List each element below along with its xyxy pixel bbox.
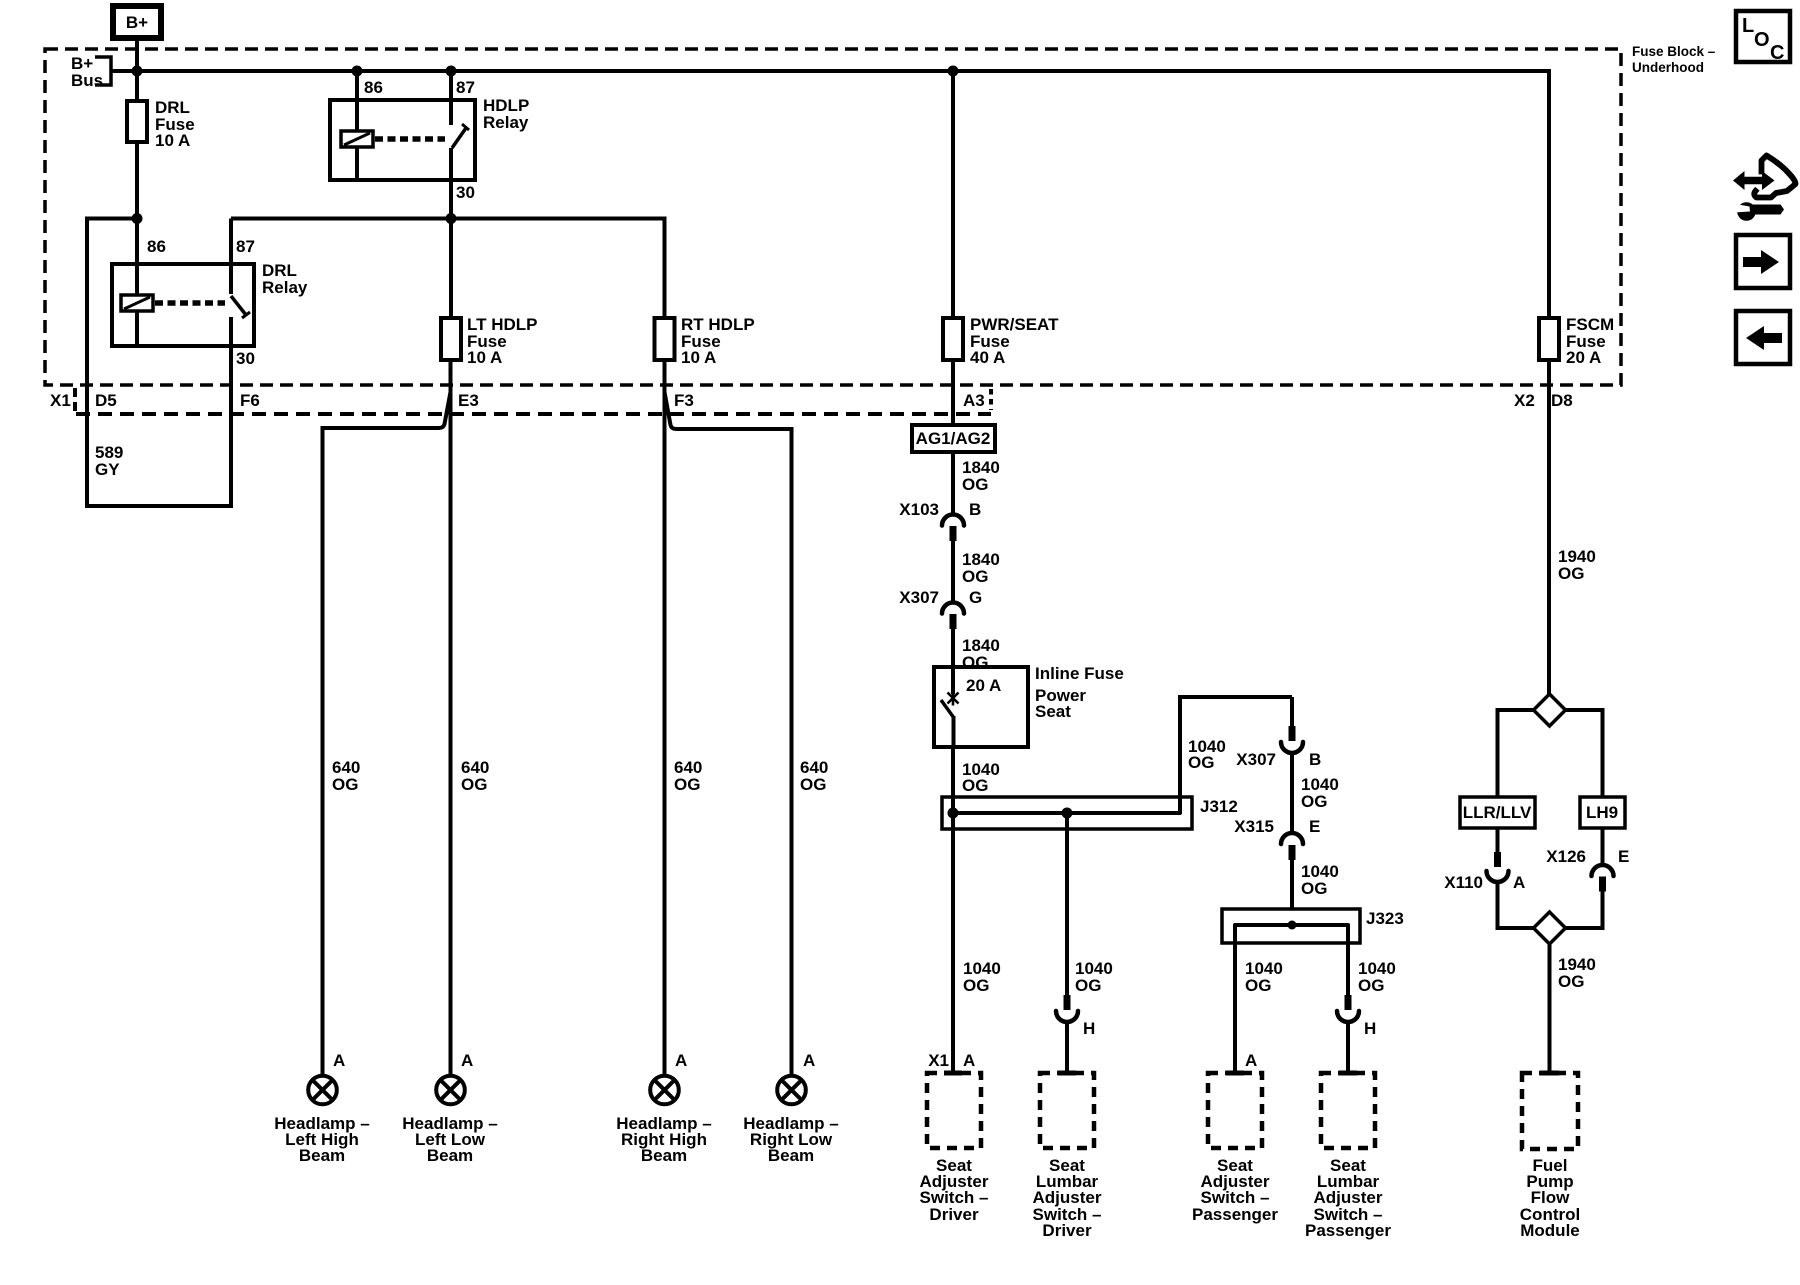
node AG1/AG2 <box>912 425 995 452</box>
connector X110 pin A <box>1444 828 1525 892</box>
junction dot J312 lumbar tap <box>1062 808 1073 819</box>
B+ power symbol <box>113 6 161 38</box>
relay DRL <box>112 219 308 369</box>
svg-text:10 A: 10 A <box>681 348 716 367</box>
lamp right low beam <box>743 1051 838 1165</box>
wire X103 to X307 <box>951 541 955 603</box>
bus rail B+ <box>111 71 1549 318</box>
fuel pump flow control module box <box>1520 1073 1580 1240</box>
connector X103 pin B <box>899 500 981 541</box>
svg-text:Passenger: Passenger <box>1305 1221 1391 1240</box>
svg-text:Beam: Beam <box>299 1146 345 1165</box>
svg-text:X110: X110 <box>1444 873 1483 892</box>
svg-text:F6: F6 <box>240 391 260 410</box>
wire bus to DRL fuse <box>135 71 139 101</box>
svg-text:Underhood: Underhood <box>1632 60 1704 75</box>
label 1040 OG passenger adjuster <box>1245 959 1283 995</box>
svg-text:Relay: Relay <box>483 113 529 132</box>
svg-text:X1: X1 <box>50 391 71 410</box>
svg-text:40 A: 40 A <box>970 348 1005 367</box>
wire X307 to inline fuse <box>951 629 955 693</box>
wire HDLP 30 to rail2 <box>449 180 453 219</box>
connector X307 pin G <box>899 588 982 629</box>
svg-text:OG: OG <box>332 775 358 794</box>
svg-text:10 A: 10 A <box>467 348 502 367</box>
tick X1 <box>73 388 77 411</box>
wire diamond to fuel pump module <box>1548 944 1552 1071</box>
svg-text:H: H <box>1083 1019 1095 1038</box>
svg-text:OG: OG <box>800 775 826 794</box>
tick A3 <box>989 389 993 410</box>
svg-text:Beam: Beam <box>427 1146 473 1165</box>
svg-text:OG: OG <box>962 776 988 795</box>
wire AG1/AG2 to X103 <box>951 452 955 515</box>
label 1040 OG <box>1301 775 1339 811</box>
svg-text:D5: D5 <box>95 391 117 410</box>
svg-text:J323: J323 <box>1366 909 1404 928</box>
junction dot bus/HDLP 86 <box>352 66 363 77</box>
svg-text:B+: B+ <box>126 13 148 32</box>
svg-text:87: 87 <box>236 237 255 256</box>
B+ Bus label and bracket <box>71 54 111 90</box>
junction dot DRL fuse / D5 rail <box>132 213 143 224</box>
splice diamond bottom <box>1534 912 1566 944</box>
svg-text:86: 86 <box>364 78 383 97</box>
wire through J312 to driver switch <box>951 797 955 1071</box>
seat adjuster switch driver box <box>920 1051 989 1224</box>
connector X315 pin E <box>1234 817 1320 860</box>
wire X126 to bottom diamond <box>1566 890 1603 928</box>
label 1840 OG <box>962 636 1000 672</box>
svg-text:Seat: Seat <box>1035 702 1071 721</box>
label 589 GY <box>95 443 123 479</box>
wire branch E3 to left high lamp <box>323 392 451 1074</box>
junction J323 <box>1222 909 1404 943</box>
splice diamond top <box>1534 694 1566 726</box>
junction J312 <box>942 797 1238 829</box>
svg-text:Driver: Driver <box>929 1205 979 1224</box>
wire J312 tap up to X307 B <box>1180 697 1292 813</box>
relay HDLP <box>330 71 529 202</box>
svg-text:OG: OG <box>962 475 988 494</box>
fuse PWR/SEAT 40A <box>943 315 1059 367</box>
svg-text:O: O <box>1754 29 1770 51</box>
svg-text:OG: OG <box>461 775 487 794</box>
lamp right high beam <box>616 1051 711 1165</box>
nav icon car with arrows and wrench <box>1733 156 1796 221</box>
nav arrow next <box>1736 235 1790 288</box>
Fuse Block label <box>1632 44 1716 75</box>
label 640 OG lamp4 <box>800 758 828 794</box>
wire J312 to driver lumbar connector <box>1065 813 1069 995</box>
svg-text:OG: OG <box>1188 753 1214 772</box>
wire H to passenger lumbar switch <box>1346 1021 1350 1073</box>
fuse LT HDLP <box>441 219 538 368</box>
nav arrow back <box>1736 311 1790 364</box>
node LLR/LLV <box>1460 797 1535 828</box>
svg-text:10 A: 10 A <box>155 131 190 150</box>
wire inline fuse to J312 <box>951 747 955 797</box>
connector H driver lumbar <box>1056 995 1095 1038</box>
wire DRL 30 to loop <box>229 346 233 508</box>
svg-text:OG: OG <box>962 653 988 672</box>
svg-text:C: C <box>1770 42 1784 64</box>
wire branch F3 to right low lamp <box>665 392 792 1074</box>
lamp left low beam <box>402 1051 497 1165</box>
label 1940 OG <box>1558 955 1596 991</box>
svg-text:OG: OG <box>1558 972 1584 991</box>
svg-text:J312: J312 <box>1200 797 1238 816</box>
svg-text:X315: X315 <box>1234 817 1274 836</box>
wire J323 to passenger lumbar <box>1346 925 1350 995</box>
svg-text:OG: OG <box>1301 879 1327 898</box>
svg-text:Passenger: Passenger <box>1192 1205 1278 1224</box>
label 1040 OG <box>1301 862 1339 898</box>
svg-text:A: A <box>1513 873 1525 892</box>
svg-text:30: 30 <box>456 183 475 202</box>
svg-text:Driver: Driver <box>1042 1221 1092 1240</box>
label 1840 OG <box>962 550 1000 586</box>
svg-text:A: A <box>1245 1051 1257 1070</box>
svg-text:X2: X2 <box>1514 391 1535 410</box>
wire A3 to AG1/AG2 <box>951 360 955 425</box>
svg-text:OG: OG <box>1245 976 1271 995</box>
svg-text:86: 86 <box>147 237 166 256</box>
wire rail to D5 <box>87 219 137 509</box>
label 640 OG lamp3 <box>674 758 702 794</box>
svg-text:Relay: Relay <box>262 278 308 297</box>
svg-text:H: H <box>1364 1019 1376 1038</box>
svg-text:X126: X126 <box>1546 847 1586 866</box>
svg-text:G: G <box>969 588 982 607</box>
label 1840 OG <box>962 458 1000 494</box>
svg-text:X307: X307 <box>1236 750 1276 769</box>
wire E3 to left low lamp <box>449 360 453 1074</box>
svg-text:Inline Fuse: Inline Fuse <box>1035 664 1124 683</box>
wire F3 to right high lamp <box>663 360 667 1074</box>
lamp left high beam <box>274 1051 369 1165</box>
LOC page icon <box>1736 11 1790 64</box>
svg-text:Module: Module <box>1520 1221 1580 1240</box>
wire B+ down to bus <box>135 41 139 71</box>
svg-text:D8: D8 <box>1551 391 1573 410</box>
wire DRL fuse to node <box>135 142 139 295</box>
label 1040 OG driver lumbar <box>1075 959 1113 995</box>
svg-text:A: A <box>461 1051 473 1070</box>
wire diamond to LLR/LLV <box>1498 710 1534 797</box>
wire X110 to bottom diamond <box>1498 881 1534 929</box>
svg-text:20 A: 20 A <box>1566 348 1601 367</box>
svg-text:A: A <box>963 1051 975 1070</box>
fuse FSCM 20A <box>1539 315 1614 367</box>
junction dot bus/PWR-SEAT fuse <box>948 66 959 77</box>
svg-text:A: A <box>333 1051 345 1070</box>
wire PWR/SEAT fuse feed <box>951 71 955 318</box>
svg-text:B: B <box>969 500 981 519</box>
svg-text:OG: OG <box>1558 564 1584 583</box>
label 1040 OG driver adjuster <box>963 959 1001 995</box>
svg-text:L: L <box>1742 15 1754 37</box>
svg-text:A: A <box>675 1051 687 1070</box>
svg-text:B: B <box>1309 750 1321 769</box>
svg-text:F3: F3 <box>674 391 694 410</box>
wire X307B to X315 <box>1290 752 1294 834</box>
svg-text:Fuse Block –: Fuse Block – <box>1632 44 1716 59</box>
svg-text:GY: GY <box>95 460 120 479</box>
rail2 from DRL87 to RT fuse <box>231 219 665 319</box>
svg-text:A: A <box>803 1051 815 1070</box>
seat adjuster switch passenger box <box>1192 1051 1278 1224</box>
inline fuse 20A power seat <box>934 664 1124 747</box>
svg-text:E3: E3 <box>458 391 479 410</box>
svg-text:LLR/LLV: LLR/LLV <box>1463 803 1532 822</box>
wire diamond to LH9 <box>1566 710 1603 797</box>
fuse RT HDLP <box>655 315 755 367</box>
svg-text:X103: X103 <box>899 500 939 519</box>
fuse block underhood dashed border <box>45 49 1621 385</box>
svg-text:A3: A3 <box>963 391 985 410</box>
label 1040 OG <box>962 760 1000 795</box>
label 1040 OG tap <box>1188 737 1226 772</box>
svg-text:OG: OG <box>1301 792 1327 811</box>
svg-text:OG: OG <box>962 567 988 586</box>
connector H passenger lumbar <box>1337 995 1376 1038</box>
label 640 OG lamp1 <box>332 758 360 794</box>
svg-text:LH9: LH9 <box>1586 803 1618 822</box>
wire 589 GY loop D5 to F6 <box>87 504 231 508</box>
connector X126 pin E <box>1546 828 1629 892</box>
svg-text:87: 87 <box>456 78 475 97</box>
svg-text:30: 30 <box>236 349 255 368</box>
svg-text:X1: X1 <box>928 1051 949 1070</box>
junction dot rail2 <box>446 213 457 224</box>
wire FSCM fuse down <box>1547 360 1551 695</box>
svg-text:OG: OG <box>1075 976 1101 995</box>
label 640 OG lamp2 <box>461 758 489 794</box>
junction dot J312 feed <box>948 808 959 819</box>
junction dot bus/HDLP 87 <box>446 66 457 77</box>
fuse DRL 10A <box>127 98 195 150</box>
svg-text:20 A: 20 A <box>966 676 1001 695</box>
svg-text:Beam: Beam <box>768 1146 814 1165</box>
svg-text:OG: OG <box>674 775 700 794</box>
seat lumbar adjuster switch passenger box <box>1305 1073 1391 1240</box>
connector pin labels <box>50 391 1573 410</box>
svg-text:AG1/AG2: AG1/AG2 <box>916 429 991 448</box>
wire J323 to passenger adjuster <box>1233 925 1237 1071</box>
svg-text:Bus: Bus <box>71 71 103 90</box>
svg-text:Beam: Beam <box>641 1146 687 1165</box>
junction dot bus/B+ <box>132 66 143 77</box>
label 1040 OG passenger lumbar <box>1358 959 1396 995</box>
connector X307 pin B (passenger branch) <box>1236 697 1321 769</box>
svg-text:E: E <box>1309 817 1320 836</box>
svg-text:OG: OG <box>1358 976 1384 995</box>
wire H to driver lumbar switch <box>1065 1021 1069 1073</box>
svg-text:X307: X307 <box>899 588 939 607</box>
seat lumbar adjuster switch driver box <box>1033 1073 1102 1240</box>
connector band second dashed line <box>76 412 991 416</box>
label 1940 OG <box>1558 547 1596 583</box>
wire X315 to J323 <box>1290 860 1294 925</box>
svg-text:E: E <box>1618 847 1629 866</box>
node LH9 <box>1580 797 1625 828</box>
svg-text:OG: OG <box>963 976 989 995</box>
